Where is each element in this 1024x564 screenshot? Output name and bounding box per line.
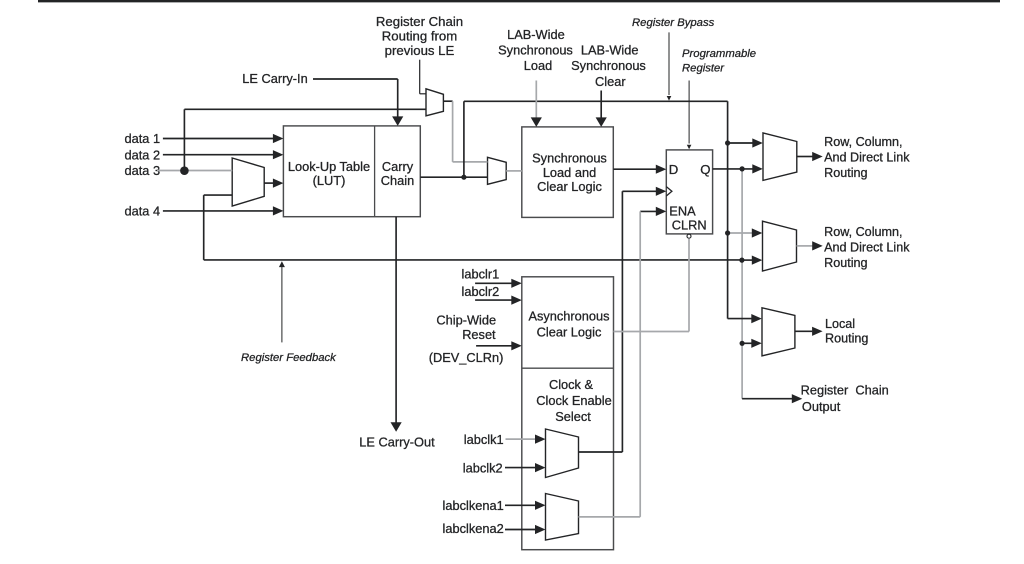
divider async/clock [522,367,614,369]
clock chevron [666,187,672,196]
svg-text:Chain: Chain [381,173,414,188]
svg-text:Select: Select [555,409,591,424]
wire Q output [713,168,753,170]
mux M1 register chain select [426,89,443,116]
svg-text:Local: Local [825,317,855,331]
wire labclkena1 [505,504,536,506]
svg-text:(DEV_CLRn): (DEV_CLRn) [429,350,504,365]
svg-text:LAB-Wide: LAB-Wide [507,27,565,42]
svg-text:Register Feedback: Register Feedback [241,352,337,364]
svg-text:D: D [669,162,679,177]
wire register feedback horizontal [204,259,742,261]
wire Q to mux M6 input [742,342,751,344]
wire bypass drop to carry node [463,101,465,177]
wire data3 branch to mux M1 [184,108,426,110]
svg-text:previous LE: previous LE [385,43,455,58]
svg-text:Clear: Clear [595,74,626,89]
svg-text:And Direct Link: And Direct Link [824,150,910,164]
wire register chain output [742,398,792,400]
divider LUT/Carry [374,126,376,217]
wire bypass to mux M6 input [728,318,752,320]
wire async clear to CLRN gray [614,331,690,333]
wire data3 branch up [183,109,185,170]
svg-text:Synchronous: Synchronous [571,58,646,73]
svg-text:labclr1: labclr1 [462,267,500,282]
svg-text:ENA: ENA [669,203,696,218]
wire labclkena2 [505,529,536,531]
svg-text:LE Carry-In: LE Carry-In [242,71,307,86]
svg-text:Chip-Wide: Chip-Wide [436,313,496,328]
wire clock mux output [579,451,623,453]
wire labclk2 [505,467,536,469]
wire data1 to LUT [163,138,275,140]
mux M7 clock select [546,429,579,478]
svg-text:(LUT): (LUT) [313,173,346,188]
mux M8 clock enable select [546,494,579,541]
svg-text:Programmable: Programmable [682,48,756,60]
node bypass to mux M5 [725,230,730,235]
wire bypass to mux M4 input [728,142,753,144]
svg-text:Routing: Routing [824,256,867,270]
svg-text:data 1: data 1 [125,131,161,146]
svg-text:Clear Logic: Clear Logic [537,179,602,194]
svg-text:data 3: data 3 [125,163,161,178]
wire data3 gray [157,170,232,172]
box U3 programmable register DFF [666,150,712,234]
mux M3 sync-load data select [488,157,507,184]
wire labclr2 [475,299,512,301]
svg-text:labclk1: labclk1 [464,432,504,447]
svg-text:Routing from: Routing from [382,29,458,44]
wire feedback riser to mux M2 [203,195,205,260]
pointer register bypass [668,32,670,95]
node feedback to mux M5 [739,258,744,263]
top border rule [38,0,1000,2]
wire bypass vertical [727,101,729,318]
svg-text:data 2: data 2 [125,147,161,162]
wire data2 to LUT [163,154,275,156]
wire Q vertical gray [741,169,743,399]
wire labclr1 [475,282,512,284]
svg-text:And Direct Link: And Direct Link [824,240,910,254]
svg-text:labclk2: labclk2 [463,461,503,476]
wire chip-wide reset [476,345,512,347]
svg-text:Output: Output [802,399,841,414]
svg-text:Register Chain: Register Chain [376,14,463,29]
wire mux M1 output drop gray [452,101,454,162]
wire ENA vertical gray [639,211,641,517]
wire mux M6 output [795,330,812,332]
pointer register feedback [281,264,283,343]
wire LAB sync load arrow gray [535,81,537,120]
CLRN inversion bubble [687,234,691,238]
node bypass to mux M4 [725,140,730,145]
svg-text:Routing: Routing [824,166,867,180]
box U2 Synchronous Load and Clear Logic [522,127,614,217]
svg-text:LE Carry-Out: LE Carry-Out [359,435,435,450]
svg-text:Reset: Reset [462,327,496,342]
svg-text:Row, Column,: Row, Column, [824,135,902,149]
svg-text:Register Bypass: Register Bypass [632,17,715,29]
wire LE carry-in [313,78,398,80]
wire mux M2 output to LUT [264,182,275,184]
svg-text:Register Chain: Register Chain [801,382,889,397]
svg-text:labclkena2: labclkena2 [443,521,504,536]
svg-text:CLRN: CLRN [672,217,707,232]
pointer register chain routing [419,60,421,94]
svg-text:Look-Up Table: Look-Up Table [288,159,370,174]
wire mux M5 output gray [797,245,813,247]
wire carry output to mux M3 [420,176,487,178]
mux M6 local routing output [762,308,795,356]
wire feedback to mux M5 input [742,259,752,261]
node carry output junction [461,175,466,180]
svg-text:LAB-Wide: LAB-Wide [581,42,639,57]
mux M4 row/column output top [763,133,797,181]
svg-text:Row, Column,: Row, Column, [824,225,902,239]
wire LE carry-out [395,217,397,425]
svg-text:Clock Enable: Clock Enable [536,393,611,408]
wire mux M3 output gray [506,170,522,172]
svg-text:Load and: Load and [543,165,596,180]
mux M5 row/column output bottom [763,221,797,271]
wire register bypass horizontal [464,100,728,102]
svg-text:Synchronous: Synchronous [532,151,607,166]
wire mux M1 output [443,100,452,102]
wire data4 to LUT [163,210,275,212]
svg-text:labclkena1: labclkena1 [443,498,504,513]
svg-text:Carry: Carry [382,159,414,174]
wire labclk1 gray [506,438,537,440]
pointer programmable register [688,81,690,144]
svg-text:Q: Q [700,162,710,177]
box U4 Asynchronous Clear Logic / Clock Enable Select [522,277,614,550]
wire sync logic to D [613,168,656,170]
svg-text:Synchronous: Synchronous [498,42,573,57]
svg-text:Routing: Routing [825,332,868,346]
svg-text:Load: Load [524,58,552,73]
node data3 junction [180,166,189,175]
svg-text:Clock &: Clock & [549,377,594,392]
node Q vert to mux M6 [740,341,745,346]
wire LAB sync clear arrow [600,91,602,120]
wire bypass to mux M5 input gray [728,232,753,234]
box U1 Look-Up Table / Carry Chain [283,126,420,217]
wire clock enable mux output gray [579,516,641,518]
svg-text:labclr2: labclr2 [462,284,500,299]
node Q junction [740,166,745,171]
svg-text:data 4: data 4 [125,204,161,219]
wire ENA horizontal [640,210,656,212]
svg-text:Register: Register [682,63,725,75]
mux M2 data3/feedback select [232,158,264,206]
wire clock vertical [621,191,623,452]
svg-text:Asynchronous: Asynchronous [528,309,609,324]
svg-text:Clear Logic: Clear Logic [537,324,602,339]
wire mux M4 output [797,156,813,158]
